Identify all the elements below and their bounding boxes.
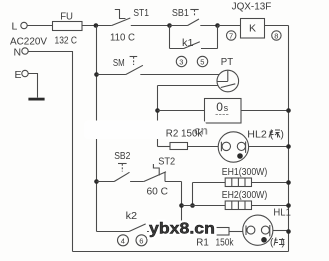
- wire right bus: [288, 26, 290, 252]
- label R2 150k: [166, 129, 203, 140]
- node SB1 left junction: [167, 23, 172, 28]
- svg-text:EH1(300W): EH1(300W): [222, 167, 267, 178]
- heater EH1: [225, 178, 251, 187]
- relay coil K box: [241, 19, 265, 39]
- wire E to ground: [28, 74, 37, 98]
- svg-text:3: 3: [179, 57, 183, 66]
- label k2: [126, 211, 138, 222]
- wire ST1 to SB1: [131, 25, 170, 27]
- svg-text:SB2: SB2: [114, 151, 131, 162]
- pin 7: [227, 31, 236, 41]
- node heater R1 junction: [179, 229, 184, 234]
- wire EH1 to bus: [252, 182, 289, 184]
- label HL1: [273, 208, 291, 219]
- resistor R1: [208, 228, 229, 236]
- label EH1: [222, 167, 267, 178]
- lamp HL2: [218, 132, 248, 162]
- label timer small text: [216, 114, 230, 116]
- label HL2 green: [247, 130, 284, 141]
- wire main live bus: [96, 26, 98, 232]
- label AC220V: [10, 37, 47, 48]
- svg-text:ybx8.cn: ybx8.cn: [149, 221, 215, 238]
- label 110 C: [110, 33, 135, 44]
- svg-text:): ): [281, 130, 284, 141]
- wire R2 to HL2: [188, 146, 219, 148]
- pin 3: [176, 56, 186, 66]
- watermark faint blue: [194, 124, 208, 138]
- svg-text:E: E: [15, 69, 22, 81]
- label K: [249, 23, 256, 35]
- wire to timer box: [158, 110, 205, 112]
- glyph green: [269, 130, 280, 138]
- wire to R2: [158, 146, 171, 148]
- pushbutton SB1 actuator: [190, 10, 198, 17]
- resistor R2: [170, 143, 188, 150]
- switch SM: [97, 65, 220, 74]
- svg-text:SB1: SB1: [172, 8, 189, 19]
- node fuse-bus junction: [94, 23, 99, 28]
- svg-text:4: 4: [121, 236, 125, 245]
- svg-text:N: N: [14, 47, 22, 59]
- svg-text:7: 7: [229, 32, 233, 41]
- pin 4: [118, 235, 129, 246]
- label E: [15, 69, 22, 81]
- timer box 0s: [205, 99, 242, 124]
- contact k1 branch: [170, 26, 218, 49]
- label k1: [182, 38, 194, 49]
- wire R1 to HL1: [229, 231, 243, 233]
- thermostat ST2 blade: [144, 172, 182, 182]
- label PT: [221, 57, 233, 68]
- pushbutton SB2: [97, 172, 144, 181]
- thermostat ST2 actuator: [153, 164, 159, 176]
- watermark white band: [84, 121, 206, 140]
- svg-text:6: 6: [139, 236, 143, 245]
- glyph red: [274, 238, 285, 246]
- node SB2 junction: [94, 179, 99, 184]
- label FU: [60, 11, 73, 23]
- node bus HL1 junction: [286, 229, 291, 234]
- node SB1 right junction: [215, 23, 220, 28]
- label N: [14, 47, 22, 59]
- wire N down left side: [28, 52, 72, 252]
- label ST2: [158, 157, 175, 168]
- svg-text:k2: k2: [126, 211, 138, 222]
- svg-text:K: K: [249, 23, 256, 35]
- ground: [28, 98, 44, 101]
- label ST1: [133, 8, 149, 19]
- svg-text:110 C: 110 C: [110, 33, 135, 44]
- wire EH2 line: [182, 205, 226, 207]
- node bus HL2 junction: [286, 144, 291, 149]
- fuse FU 132C: [53, 22, 83, 31]
- wire HL1 to bus: [273, 230, 289, 232]
- pin 5: [197, 56, 207, 66]
- thermostat ST1 actuator: [115, 10, 126, 19]
- wire coil to right bus: [265, 25, 289, 27]
- label SB2: [114, 151, 131, 162]
- pin 8: [272, 31, 281, 41]
- label 132 C: [55, 36, 78, 47]
- wire EH2 to bus: [252, 205, 289, 207]
- thermostat ST1 blade: [112, 18, 131, 26]
- node EH2 left junction: [179, 203, 184, 208]
- label JQX-13F: [232, 2, 272, 13]
- label R1 150k: [196, 238, 234, 249]
- wire HL2 to bus: [249, 146, 289, 148]
- switch SM actuator: [130, 57, 138, 66]
- wire fuse to ST1: [82, 25, 112, 27]
- wire timer box to bus: [241, 110, 289, 112]
- wire ST2 down to heater node: [181, 182, 183, 232]
- node timer box junction: [155, 108, 160, 113]
- lamp HL1: [243, 215, 273, 245]
- label HL1 red: [270, 238, 285, 249]
- label 60 C: [147, 187, 169, 198]
- wire EH1 feed: [193, 183, 226, 206]
- node SM junction: [94, 72, 99, 77]
- svg-text:L: L: [12, 21, 18, 33]
- svg-text:EH2(300W): EH2(300W): [222, 190, 267, 201]
- svg-text:60 C: 60 C: [147, 187, 169, 198]
- wire bottom rail: [73, 251, 289, 253]
- pushbutton SB1: [170, 19, 218, 26]
- heater EH2: [225, 201, 251, 210]
- svg-text:JQX-13F: JQX-13F: [232, 2, 272, 13]
- label SM: [113, 58, 125, 69]
- terminal N: [22, 48, 28, 54]
- svg-text:PT: PT: [221, 57, 233, 68]
- pushbutton SB2 actuator: [118, 164, 127, 172]
- pin 6: [136, 235, 147, 246]
- wire junction to relay coil: [218, 25, 241, 27]
- timer motor PT: [217, 70, 239, 92]
- node bus timer junction: [286, 108, 291, 113]
- node EH feed junction: [190, 203, 195, 208]
- label EH2: [222, 190, 267, 201]
- svg-text:FU: FU: [60, 11, 73, 23]
- svg-text:s: s: [224, 103, 229, 113]
- terminal L: [21, 22, 27, 28]
- terminal E: [22, 70, 28, 76]
- svg-text:k1: k1: [182, 38, 194, 49]
- svg-text:SM: SM: [113, 58, 125, 69]
- svg-text:HL1: HL1: [273, 208, 291, 219]
- svg-text:0: 0: [216, 100, 223, 114]
- node bus EH2 junction: [286, 203, 291, 208]
- label SB1: [172, 8, 189, 19]
- svg-text:ST2: ST2: [158, 157, 175, 168]
- svg-text:5: 5: [200, 57, 204, 66]
- label L: [12, 21, 18, 33]
- wire timer contact feed: [158, 86, 219, 147]
- wire L to fuse: [27, 25, 52, 27]
- svg-text:ST1: ST1: [133, 8, 149, 19]
- svg-text:R1: R1: [196, 238, 209, 249]
- svg-text:R2 150k: R2 150k: [166, 129, 203, 140]
- svg-text:150k: 150k: [216, 238, 235, 249]
- svg-text:132 C: 132 C: [55, 36, 78, 47]
- label 0s: [216, 100, 228, 114]
- svg-text:8: 8: [274, 32, 278, 41]
- node bus EH1 junction: [286, 180, 291, 185]
- contact k2: [97, 224, 209, 232]
- watermark ybx8.cn: [149, 221, 215, 238]
